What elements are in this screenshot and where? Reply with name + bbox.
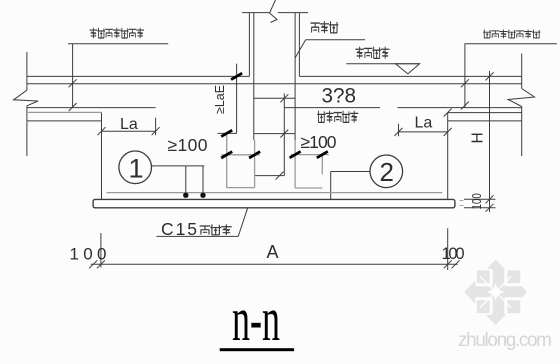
svg-text:100: 100 [70,245,107,264]
svg-text:A: A [267,242,279,262]
svg-text:≥LaE: ≥LaE [213,85,227,114]
svg-text:H: H [470,132,487,143]
svg-text:La: La [120,116,138,133]
svg-text:n-n: n-n [232,286,280,354]
svg-text:2: 2 [380,157,394,187]
svg-text:≥100: ≥100 [301,132,337,152]
svg-text:3?8: 3?8 [322,84,357,108]
svg-text:1: 1 [129,154,144,184]
svg-text:≥100: ≥100 [168,135,208,155]
svg-text:100: 100 [471,193,484,209]
svg-text:C15: C15 [161,219,197,239]
svg-text:La: La [415,115,433,132]
svg-text:zhulong.com: zhulong.com [458,330,552,351]
svg-text:100: 100 [442,245,465,263]
